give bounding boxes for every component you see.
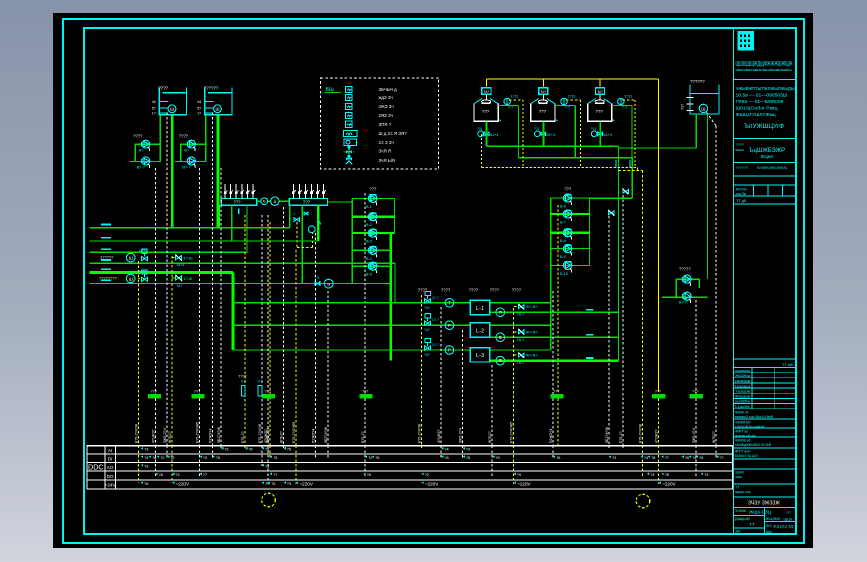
tank T2 level sensor [214, 105, 222, 113]
svg-text:?3: ?3 [203, 456, 207, 460]
signal line x623 [622, 446, 624, 448]
svg-text:?4?: ?4? [424, 328, 430, 332]
header H1 branch taps [224, 184, 226, 199]
svg-text:?3: ?3 [466, 448, 470, 452]
svg-text:~220V: ~220V [517, 481, 531, 486]
svg-text:?А?4: ?А?4 [176, 264, 184, 268]
svg-text:шшШЖж: шшШЖж [735, 400, 751, 404]
makeup pump loop piping [676, 279, 699, 297]
boiler BL3 burner lens [595, 100, 604, 103]
svg-text:Р: Р [448, 323, 451, 328]
svg-text:???: ??? [362, 390, 368, 394]
title block divider 2 [734, 138, 797, 140]
svg-text:Б?5-2?: Б?5-2? [361, 431, 365, 443]
svg-text:?3: ?3 [287, 482, 291, 486]
svg-text:ГА-?: ГА-? [517, 361, 524, 365]
svg-text:?6: ?6 [367, 473, 371, 477]
load unit L-1 inlet valve group [425, 299, 431, 303]
distribution pipe L5 [90, 271, 233, 274]
svg-text:Б?5-2?4?Ж5: Б?5-2?4?Ж5 [510, 422, 514, 443]
feed-water meter 2 [126, 274, 135, 283]
svg-text:B-7: B-7 [560, 221, 566, 225]
distribution pipe L1 [90, 227, 290, 229]
title block divider 3 [734, 162, 797, 164]
svg-text:B-5: B-5 [366, 273, 372, 277]
svg-text:Б?5-2?4?Ж: Б?5-2?4?Ж [639, 423, 643, 443]
svg-text:???: ??? [369, 187, 377, 192]
pump B-2 [369, 213, 377, 224]
svg-text:ЖЗ: ЖЗ [766, 524, 771, 528]
svg-text:?5: ?5 [287, 448, 291, 452]
signal line x462 [462, 446, 464, 458]
DDC wire entry ticks [141, 447, 143, 450]
svg-text:Т?L: Т?L [314, 276, 320, 280]
boiler control dashed loop verticals [481, 134, 483, 168]
load unit L-2 inlet valve group [425, 321, 431, 325]
svg-text:ЗЖ5-2?4: ЗЖ5-2?4 [163, 428, 167, 443]
svg-text:шышшышшышшяшяшышы: шышшышшышшяшяшышы [736, 68, 793, 72]
signal line x553 [552, 446, 554, 458]
svg-text:????: ???? [418, 288, 428, 293]
svg-text:II: II [327, 282, 330, 287]
boiler BL3 outlet pipe [599, 121, 601, 146]
svg-text:??1: ??1 [534, 127, 540, 131]
boiler BL1 drain instrument [478, 131, 484, 137]
makeup pump b [683, 292, 691, 303]
title block lower rows [734, 418, 797, 420]
svg-text:4?1ЖЗ?: 4?1ЖЗ? [655, 429, 659, 443]
signal line x199 [199, 446, 201, 477]
header H2 drop mid [301, 205, 303, 283]
svg-text:?6: ?6 [248, 448, 252, 452]
svg-text:?4: ?4 [444, 448, 448, 452]
tank T3 level ticks [686, 97, 693, 99]
svg-text:ЫЫЖБдЖЖЫЖЗб. Ле ЗЫб: ЫЫЖБдЖЖЫЖЗб. Ле ЗЫб [735, 443, 771, 447]
svg-text:?8: ?8 [444, 456, 448, 460]
pump B-8 [564, 229, 572, 240]
boiler BL1 body [474, 104, 498, 122]
tank T1 main riser (thick) [171, 115, 174, 228]
svg-text:Б: Б [499, 358, 502, 363]
svg-text:ЗЖ: ЗЖ [735, 530, 741, 534]
svg-text:вюивжЗ squ брэ Ш йиВ: вюивжЗ squ брэ Ш йиВ [735, 415, 774, 419]
svg-text:Ш: Ш [215, 107, 219, 112]
boiler instrument dashed stubs [509, 99, 523, 101]
header H1 drain tick [238, 209, 240, 215]
signal line x268 [267, 446, 269, 484]
svg-text:ЗЖ5-2?4: ЗЖ5-2?4 [692, 428, 696, 443]
svg-text:???: ??? [596, 109, 604, 114]
svg-text:ЗЖ5-2?4: ЗЖ5-2?4 [459, 428, 463, 443]
pump B-7 [564, 210, 572, 221]
svg-text:БЫЫЧЗ ЗЦ ЦЗЧ: БЫЫЧЗ ЗЦ ЦЗЧ [735, 454, 758, 458]
svg-text:Шж: Шж [766, 530, 772, 534]
svg-text:Ν?: Ν? [598, 89, 604, 94]
svg-text:?2: ?2 [612, 456, 616, 460]
svg-text:ЖТТ апч: ЖТТ апч [735, 450, 751, 454]
header instrument b [271, 197, 279, 205]
svg-text:???: ??? [564, 187, 572, 192]
thick header feed vertical [232, 273, 235, 351]
svg-text:Ж?-Ж?: Ж?-Ж? [526, 354, 538, 358]
DDC panel outline [87, 446, 733, 489]
boiler BL2 outlet pipe [542, 121, 544, 146]
boiler BL3 top box [596, 88, 605, 95]
svg-text:?8: ?8 [152, 456, 156, 460]
svg-text:B-1: B-1 [366, 205, 372, 209]
boiler BL2 body [531, 104, 555, 122]
svg-text:44: 44 [197, 100, 201, 104]
header H2 branch taps [292, 184, 294, 199]
svg-text:AO: AO [107, 465, 114, 470]
svg-text:1?????: 1????? [100, 255, 114, 260]
header H2 to pump column pipe [328, 201, 353, 203]
svg-text:????: ???? [736, 143, 744, 147]
pump B-9 branch [551, 248, 590, 250]
svg-text:1?-?: 1?-? [432, 296, 439, 300]
title block revision table [734, 367, 797, 369]
distribution pipe L6 [90, 283, 391, 285]
pump B-6 branch [551, 197, 590, 199]
signal line x155 [154, 446, 156, 477]
svg-text:???: ??? [655, 390, 661, 394]
svg-text:B?: B? [184, 149, 189, 153]
svg-text:ЖШЦзГУШЛУЖмц: ЖШЦзГУШЛУЖмц [736, 112, 776, 117]
svg-text:?2: ?2 [224, 448, 228, 452]
tank T1 [159, 88, 186, 115]
title block divider 1 [734, 78, 797, 80]
svg-text:ЗЧЗУ ЗЖЗЗЖ: ЗЧЗУ ЗЖЗЗЖ [748, 501, 780, 507]
svg-text:Ж?Б2?: Ж?Б2? [488, 431, 492, 443]
signal line x364 [364, 446, 366, 477]
svg-text:~220V: ~220V [662, 481, 676, 486]
svg-text:ЖЦЗМН: ЖЦЗМН [766, 517, 781, 521]
title block bottom cells [734, 507, 797, 509]
svg-text:V-?: V-? [258, 380, 263, 384]
svg-text:шшцж: шшцж [735, 379, 751, 383]
svg-text:1?-?: 1?-? [432, 318, 439, 322]
boiler BL3 instrument [618, 98, 624, 104]
pump B-4 [369, 246, 377, 257]
load unit L-2 inlet instrument [445, 321, 454, 330]
svg-text:?5: ?5 [271, 482, 275, 486]
svg-text:?4: ?4 [692, 456, 696, 460]
svg-text:щшца. шж: щшца. шж [735, 490, 751, 494]
svg-text:????????: ???????? [99, 276, 118, 281]
svg-text:Ν1+4: Ν1+4 [546, 133, 555, 137]
signal terminal bars [148, 394, 161, 398]
svg-text:ЦжЖ: ЦжЖ [735, 405, 751, 409]
boiler BL2 return pipe [555, 105, 575, 107]
pump G1-a [142, 140, 150, 151]
boiler BL1 flue tick [499, 119, 501, 122]
svg-text:Б?5-2?4?Ж: Б?5-2?4?Ж [417, 423, 421, 443]
svg-text:?9: ?9 [517, 473, 521, 477]
svg-text:?6: ?6 [144, 482, 148, 486]
svg-text:B-9: B-9 [560, 255, 566, 259]
signal line x167 [166, 446, 168, 458]
svg-text:?6: ?6 [556, 456, 560, 460]
tank T3 [690, 85, 719, 115]
flow tick 1 [586, 309, 594, 311]
header H1 drop 2 [231, 205, 233, 241]
svg-text:ЫЖЦБЖЗгpostjА/вС: ЫЖЦБЖЗгpostjА/вС [735, 425, 766, 429]
svg-text:??1: ??1 [477, 127, 483, 131]
svg-text:ЖЖЖ гН: ЖЖЖ гН [735, 410, 749, 414]
svg-text:????: ???? [441, 288, 451, 293]
load unit L-1 [470, 300, 490, 314]
pump column B supply vertical [550, 198, 552, 350]
load bypass stub 3 [490, 349, 551, 351]
svg-text:?9: ?9 [495, 456, 499, 460]
load unit L-3 outlet instrument [496, 356, 505, 365]
svg-text:Б?5-2?4?Ж: Б?5-2?4?Ж [258, 423, 262, 443]
svg-text:?2: ?2 [425, 473, 429, 477]
svg-text:5?: 5? [197, 106, 201, 110]
svg-text:?5: ?5 [273, 456, 277, 460]
signal line x513 [513, 446, 515, 484]
svg-text:ЗЖ5-2?4: ЗЖ5-2?4 [266, 428, 270, 443]
svg-text:?5: ?5 [216, 456, 220, 460]
svg-text:L-3: L-3 [476, 353, 484, 359]
boiler BL3 return pipe [612, 105, 632, 107]
svg-text:B-6: B-6 [560, 205, 566, 209]
svg-text:????: ???? [469, 288, 479, 293]
signal line x608 [608, 446, 610, 448]
pump B-8 branch [551, 231, 590, 233]
tank T3 sensor signal bend [707, 113, 717, 127]
svg-text:Б?5-2?4?Ж: Б?5-2?4?Ж [134, 423, 138, 443]
svg-text:1?-Ш: 1?-Ш [184, 257, 193, 261]
svg-text:????: ???? [512, 288, 522, 293]
pump column A return vertical lower (thick) [389, 233, 392, 361]
DDC output circle 2 [636, 494, 650, 508]
svg-text:??????: ?????? [736, 166, 749, 170]
pump G2-a [187, 140, 195, 151]
boiler BL2 instrument [561, 98, 567, 104]
pump B-1 branch [352, 197, 394, 199]
load unit L-2 outlet instrument [496, 333, 505, 342]
distribution pipe L4 [90, 262, 395, 264]
svg-text:?: ? [293, 213, 295, 217]
svg-text:???: ??? [482, 109, 490, 114]
svg-text:?8: ?8 [159, 473, 163, 477]
svg-text:Алпзв агЬже: Алпзв агЬже [735, 434, 756, 438]
svg-text:ЦШшш: ЦШшш [735, 384, 750, 388]
legend symbol squares [346, 86, 352, 92]
distribution pipe L2 [90, 240, 319, 242]
flow tick 3 [586, 357, 594, 359]
boiler BL1 stem [486, 94, 488, 100]
svg-text:ЗчЯ Я: ЗчЯ Я [379, 149, 392, 154]
svg-text:ЧЖЖЖТуб: ЧЖЖЖТуб [735, 421, 750, 425]
load unit L-3 yellow stub [514, 354, 518, 356]
svg-text:?2: ?2 [368, 456, 372, 460]
pump column A supply vertical [351, 198, 353, 283]
svg-text:???: ??? [692, 390, 698, 394]
svg-text:?4?: ?4? [424, 353, 430, 357]
load unit L-2 yellow stub [514, 331, 518, 333]
pump B-5 [369, 262, 377, 273]
header H2 drop thick [317, 205, 320, 241]
boiler BL1 instrument [504, 98, 510, 104]
svg-text:???: ??? [234, 199, 242, 204]
legend box [321, 78, 439, 169]
header H1 [221, 199, 257, 206]
svg-text:ЗЧЖЖ: ЗЧЖЖ [735, 509, 747, 513]
svg-text:Ж?Б2?: Ж?Б2? [280, 431, 284, 443]
svg-text:ТТ мБ: ТТ мБ [782, 363, 793, 367]
pump B-3 branch [352, 232, 394, 234]
svg-text:ТТ дБ: ТТ дБ [736, 199, 747, 203]
svg-text:П: П [499, 310, 502, 315]
tank T1 outlet riser [159, 115, 161, 162]
pump column A signal line [364, 193, 366, 395]
distribution pipe L2 flow mark [101, 237, 111, 239]
load unit L-2 [470, 323, 490, 337]
svg-text:+24V: +24V [105, 482, 117, 487]
collector riser B [631, 158, 633, 199]
header H2 yellow control [296, 222, 298, 248]
svg-text:Ш: Ш [129, 277, 133, 282]
svg-text:П2ЖЗ?4: П2ЖЗ?4 [549, 429, 553, 443]
svg-text:П2ЖЗ?4: П2ЖЗ?4 [312, 429, 316, 443]
svg-text:Б?5-2?4?Ж5: Б?5-2?4?Ж5 [292, 422, 296, 443]
svg-text:~220V: ~220V [425, 481, 439, 486]
svg-text:ЗБ2?4?Ж: ЗБ2?4?Ж [605, 426, 609, 443]
svg-text:?2: ?2 [170, 456, 174, 460]
svg-text:шшшшшшшшц: шшшшшшшшц [757, 166, 787, 170]
svg-text:????: ???? [158, 86, 168, 91]
svg-text:1?11: 1?11 [624, 95, 632, 99]
signal line x328 [327, 446, 329, 458]
svg-text:Ш: Ш [170, 107, 174, 112]
signal line x421 [420, 446, 422, 448]
makeup pump a [683, 275, 691, 286]
svg-text:Б: Б [263, 199, 266, 204]
outer border frame [63, 19, 804, 543]
pump B-4 branch [352, 249, 391, 251]
svg-text:Б?5-2?: Б?5-2? [619, 431, 623, 443]
svg-text:B-3: B-3 [366, 240, 372, 244]
svg-text:П2ЖЗ?4: П2ЖЗ?4 [209, 429, 213, 443]
svg-text:?7: ?7 [273, 473, 277, 477]
svg-text:ЗЦЦ1Щ ЗД: ЗЦЦ1Щ ЗД [773, 525, 793, 529]
signal line x492 [491, 446, 493, 477]
pump B-1 [369, 194, 377, 205]
load return pipe 3 [490, 359, 619, 362]
signal line x221 [220, 446, 222, 448]
signal line x642 [642, 446, 644, 477]
svg-text:Ш01SjСиЛэг Рквц: Ш01SjСиЛэг Рквц [736, 106, 778, 111]
svg-text:B-2: B-2 [366, 223, 372, 227]
svg-text:ЖШЖж: ЖШЖж [735, 374, 751, 378]
svg-text:ГА-?: ГА-? [517, 338, 524, 342]
collector riser A [618, 146, 620, 360]
svg-text:ЖЦмУ: ЖЦмУ [760, 154, 773, 159]
pump B-6 [564, 194, 572, 205]
signal line x441 [440, 446, 442, 458]
feed-water meter 1 [126, 253, 135, 262]
svg-text:DO: DO [107, 474, 114, 479]
boiler BL1 return pipe [498, 105, 518, 107]
load return pipe 2 [490, 336, 619, 338]
signal line x695 [695, 446, 697, 477]
svg-text:Р: Р [448, 348, 451, 353]
svg-text:Ж?-Ж?: Ж?-Ж? [526, 305, 538, 309]
220V labels [172, 481, 174, 484]
tank T1 level sensor [168, 105, 176, 113]
svg-text:ЧЖЫВЖПТЫТЖЛЖЫЛЖЫДЫ: ЧЖЫВЖПТЫТЖЛЖЫЛЖЫДЫ [736, 86, 795, 91]
header H2 [289, 199, 327, 206]
svg-text:ГФ5в — 01—Б905ЗЖ: ГФ5в — 01—Б905ЗЖ [736, 99, 785, 104]
boiler BL2 flue tick [556, 119, 558, 122]
pump B-10 [564, 261, 572, 272]
svg-text:ждЗ Зч: ждЗ Зч [379, 95, 393, 100]
pump B-10 branch [551, 264, 590, 266]
svg-text:ЖУпН: ЖУпН [736, 187, 747, 192]
svg-text:ГТ: ГТ [750, 522, 755, 527]
svg-text:?3: ?3 [144, 456, 148, 460]
header instrument a [261, 198, 268, 205]
svg-text:?А?: ?А? [176, 284, 182, 288]
svg-text:1?-Ж: 1?-Ж [184, 277, 193, 281]
svg-text:шшшшш: шшшшш [735, 369, 750, 373]
riser valve marks [615, 160, 617, 168]
svg-text:Т: Т [448, 300, 451, 305]
boiler return collector [518, 157, 632, 159]
svg-text:Ж?-Ж?: Ж?-Ж? [526, 330, 538, 334]
boiler control yellow header [487, 79, 659, 392]
distribution pipe L4 flow mark [101, 259, 111, 261]
load unit L-3 inlet valve group [425, 346, 431, 350]
legend valve symbol 2 [348, 156, 350, 163]
boiler BL1 top box [482, 88, 491, 95]
svg-text:????: ???? [179, 134, 189, 139]
svg-text:шшш: шшш [736, 148, 744, 152]
header H1 drop 3 [246, 205, 248, 252]
svg-text:?5: ?5 [699, 456, 703, 460]
svg-text:?7: ?7 [203, 473, 207, 477]
svg-text:B?-?: B?-? [182, 166, 190, 170]
pump column B top pipe to riser [590, 197, 633, 199]
svg-text:?3: ?3 [175, 473, 179, 477]
tank T3 outlet risers [695, 114, 697, 148]
svg-text:?3: ?3 [144, 448, 148, 452]
svg-text:Ν?: Ν? [484, 89, 490, 94]
boiler BL3 drain instrument [591, 131, 597, 137]
solenoid valve SV2 [176, 276, 182, 280]
svg-text:2ЯЗ Зч: 2ЯЗ Зч [379, 113, 393, 118]
title block scale cells [734, 184, 797, 186]
svg-text:ЗБ2?4?Ж: ЗБ2?4?Ж [217, 426, 221, 443]
svg-text:Ж?Б2?: Ж?Б2? [712, 431, 716, 443]
sensor well symbol 1 [242, 386, 246, 397]
header H1 drop 1 (thick) [217, 205, 219, 228]
boiler 3 control drop [599, 79, 601, 87]
pump B-5 branch [352, 265, 391, 267]
svg-text:???: ??? [539, 109, 547, 114]
header interconnect pipe [257, 200, 261, 202]
solenoid yellow stubs [172, 257, 175, 259]
svg-text:1?11: 1?11 [567, 95, 575, 99]
svg-text:B-8: B-8 [560, 239, 566, 243]
motor valve MV2 [142, 277, 148, 281]
solenoid valve SV1 [176, 256, 182, 260]
distribution pipe L1 flow mark [101, 224, 111, 226]
signal line x296 [295, 446, 297, 484]
svg-text:1?-?: 1?-? [432, 343, 439, 347]
